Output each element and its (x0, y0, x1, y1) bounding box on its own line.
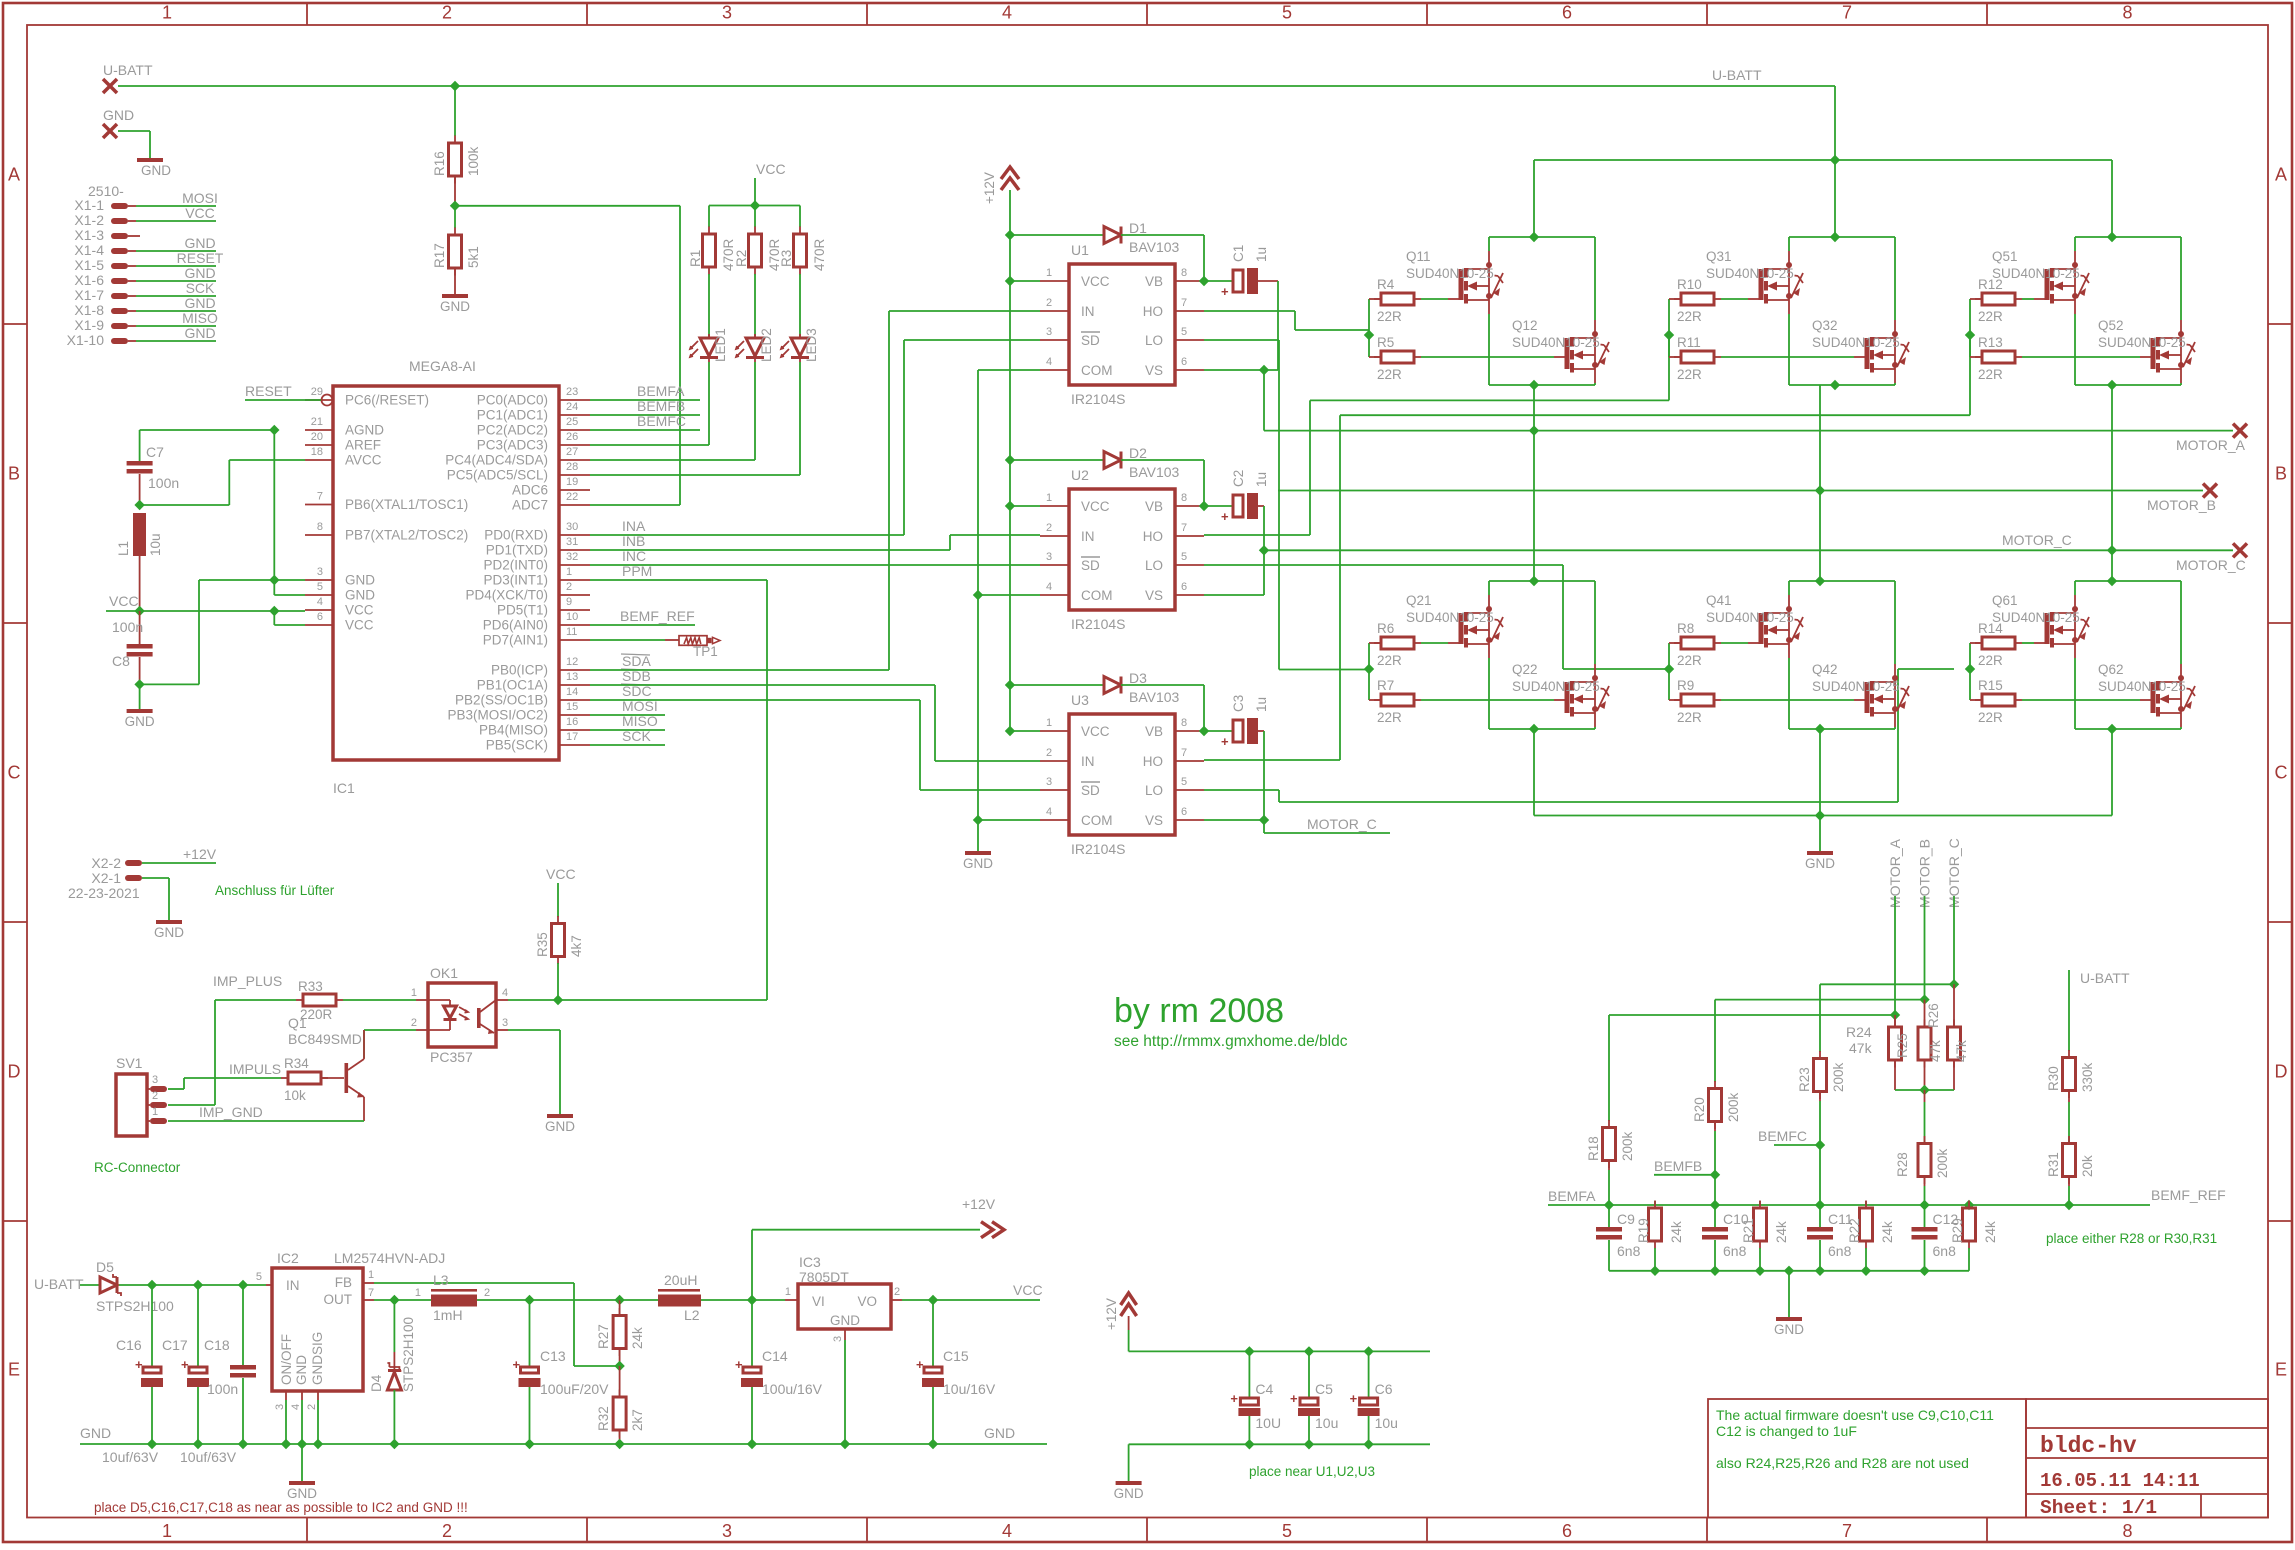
svg-text:R3: R3 (779, 250, 794, 267)
inductor L2 20uH (658, 1289, 701, 1307)
svg-text:LO: LO (1145, 333, 1163, 348)
wire OUT to L3 (394, 1299, 431, 1301)
svg-text:R31: R31 (2046, 1152, 2061, 1177)
junction VS U3 / MOTOR_C stub (1259, 815, 1269, 825)
svg-text:OUT: OUT (324, 1292, 353, 1307)
svg-text:Q61: Q61 (1992, 593, 2018, 608)
svg-text:BEMFA: BEMFA (1548, 1188, 1596, 1204)
pin 2 PD4(XCK/T0) (559, 594, 590, 596)
svg-text:2: 2 (566, 581, 572, 593)
svg-text:1: 1 (1046, 717, 1052, 729)
svg-text:22R: 22R (1978, 653, 2003, 668)
pin 11 PD7(AIN1) (559, 639, 590, 641)
wire +12V tap to arrow (752, 1229, 980, 1231)
junction R26 top (1949, 979, 1959, 989)
svg-text:BC849SMD: BC849SMD (288, 1031, 362, 1047)
svg-text:BEMF_REF: BEMF_REF (2151, 1187, 2226, 1203)
svg-text:ADC6: ADC6 (512, 483, 548, 498)
svg-text:VCC: VCC (1013, 1282, 1043, 1298)
svg-text:2: 2 (306, 1404, 318, 1410)
svg-text:10U: 10U (1255, 1415, 1281, 1431)
pin 4 IC2 bottom (301, 1391, 303, 1400)
wire U-BATT spur A-C (1534, 159, 2112, 161)
wire to D2 (1010, 459, 1104, 461)
wire R24-R26 bottoms (1895, 1089, 1954, 1091)
svg-text:IN: IN (1081, 754, 1095, 769)
wire INC (590, 564, 1040, 566)
svg-text:C: C (8, 763, 21, 783)
svg-text:6: 6 (1181, 356, 1187, 368)
wire R11 to gate (1721, 356, 1854, 358)
diode D3 BAV103 (1104, 677, 1121, 694)
junction FB divider (614, 1361, 624, 1371)
svg-text:R25: R25 (1895, 1033, 1910, 1058)
wire D2 to VB (1121, 459, 1204, 461)
svg-text:R24: R24 (1846, 1024, 1872, 1040)
capacitor C7 (127, 461, 153, 474)
junction R27 top (614, 1295, 624, 1305)
junction VCC node (134, 606, 144, 616)
junction feed Q11/Q12 (1529, 232, 1539, 242)
svg-text:2: 2 (442, 1521, 452, 1541)
svg-text:GND: GND (184, 235, 215, 251)
svg-text:R29: R29 (1950, 1218, 1965, 1243)
pin 1 PD3(INT1) (559, 579, 590, 581)
wire VB to C3 (1204, 730, 1233, 732)
junction IC2 pin3 GND (281, 1439, 291, 1449)
wire +12V tap (751, 1230, 753, 1300)
junction input cap x=198 (193, 1280, 203, 1290)
wire fan GND (142, 877, 169, 879)
wire MOTOR_B (1278, 490, 2203, 492)
junction input cap x=152 (147, 1280, 157, 1290)
svg-text:+: + (1221, 284, 1229, 299)
svg-text:BEMFB: BEMFB (637, 398, 685, 414)
capacitor C14 (735, 1357, 763, 1387)
ground fan (154, 920, 184, 940)
wire gate junction R8/R9 (1668, 643, 1670, 700)
ground below bridges (1805, 851, 1835, 871)
svg-text:22R: 22R (1377, 309, 1402, 324)
junction C16 GND (147, 1439, 157, 1449)
svg-text:3: 3 (1046, 551, 1052, 563)
svg-text:47k: 47k (1954, 1040, 1969, 1062)
pin 4 VCC (305, 609, 333, 611)
junction MOTOR_A / bridge A (1529, 425, 1539, 435)
svg-text:L3: L3 (433, 1272, 449, 1288)
wire U-BATT to R16 (454, 86, 456, 136)
svg-text:Q62: Q62 (2098, 662, 2124, 677)
svg-text:1u: 1u (1254, 472, 1269, 487)
wire gate junction R12/R13 (1969, 299, 1971, 357)
svg-text:VS: VS (1145, 363, 1163, 378)
capacitor C15 (916, 1357, 944, 1387)
svg-text:4: 4 (1046, 356, 1052, 368)
svg-text:32: 32 (566, 551, 578, 563)
resistor R34 (281, 1077, 288, 1079)
svg-text:GND: GND (345, 573, 375, 588)
junction input cap x=243 (238, 1280, 248, 1290)
svg-text:Q41: Q41 (1706, 593, 1732, 608)
pin 24 PC1(ADC1) (559, 414, 590, 416)
capacitor C6 (1350, 1391, 1380, 1416)
svg-text:TP1: TP1 (693, 644, 718, 659)
svg-text:PC5(ADC5/SCL): PC5(ADC5/SCL) (447, 468, 548, 483)
power symbol +12V (supply) (981, 1222, 1004, 1238)
svg-text:2: 2 (1046, 747, 1052, 759)
junction BEMF_REF x=1715 (1710, 1200, 1720, 1210)
svg-text:X1-2: X1-2 (74, 212, 104, 228)
wire R1 to LED1 (708, 274, 710, 338)
svg-text:BEMFA: BEMFA (637, 383, 685, 399)
junction BEMF_REF x=1924.5 (1919, 1200, 1929, 1210)
svg-text:IC1: IC1 (333, 780, 355, 796)
svg-text:Q32: Q32 (1812, 318, 1838, 333)
svg-text:C5: C5 (1315, 1381, 1333, 1397)
junction D4 GND (389, 1439, 399, 1449)
svg-text:RESET: RESET (245, 383, 292, 399)
svg-text:Q11: Q11 (1406, 249, 1431, 264)
svg-text:R18: R18 (1586, 1136, 1601, 1161)
svg-text:6: 6 (1181, 806, 1187, 818)
svg-text:PB7(XTAL2/TOSC2): PB7(XTAL2/TOSC2) (345, 528, 468, 543)
transistor Q61 (2045, 595, 2090, 658)
junction IC2 pin2 GND (313, 1439, 323, 1449)
frame column ticks top/bottom (306, 3, 308, 25)
svg-text:X1-8: X1-8 (74, 302, 104, 318)
wire U2 HO (1204, 534, 1310, 536)
svg-text:D: D (2275, 1062, 2288, 1082)
svg-text:8: 8 (2122, 1521, 2132, 1541)
pin 3 GND (305, 579, 333, 581)
svg-text:SUD40N10-25: SUD40N10-25 (1512, 679, 1600, 694)
svg-text:PD6(AIN0): PD6(AIN0) (483, 618, 548, 633)
wire C18 top (242, 1285, 244, 1365)
svg-text:SV1: SV1 (116, 1055, 143, 1071)
svg-text:LM2574HVN-ADJ: LM2574HVN-ADJ (334, 1250, 445, 1266)
wire R13 to gate (2022, 356, 2140, 358)
svg-text:3: 3 (1046, 776, 1052, 788)
svg-text:GND: GND (440, 299, 470, 314)
svg-text:4: 4 (290, 1404, 302, 1410)
pin 1 VCC U3 (1040, 730, 1069, 732)
junction BEMF GND x=1789 (1784, 1266, 1794, 1276)
wire SDB riser (934, 685, 936, 761)
svg-text:13: 13 (566, 671, 578, 683)
svg-text:22R: 22R (1677, 367, 1702, 382)
svg-text:PD2(INT0): PD2(INT0) (483, 558, 548, 573)
wire R5 to gate (1421, 356, 1554, 358)
svg-text:SUD40N10-25: SUD40N10-25 (1812, 679, 1900, 694)
svg-text:5: 5 (1181, 551, 1187, 563)
svg-text:R15: R15 (1978, 678, 2003, 693)
junction output Q51/Q52 (2107, 380, 2117, 390)
svg-text:GND: GND (287, 1486, 317, 1501)
svg-text:R19: R19 (1636, 1218, 1651, 1243)
wire U-BATT in (80, 1284, 100, 1286)
junction gates R6/R7 (1364, 664, 1374, 674)
svg-text:SD: SD (1081, 783, 1100, 798)
wire VCC to pin4 (106, 610, 305, 612)
junction R28 top (1919, 1085, 1929, 1095)
svg-text:D2: D2 (1129, 445, 1147, 461)
wire lower bridge B to GND bus (1819, 729, 1821, 816)
wire SDA riser (888, 311, 890, 670)
svg-text:U1: U1 (1071, 242, 1089, 258)
svg-text:GND: GND (830, 1313, 860, 1328)
svg-text:R17: R17 (432, 243, 447, 268)
svg-text:4: 4 (1046, 806, 1052, 818)
pin 15 PB3(MOSI/OC2) (559, 714, 590, 716)
svg-text:2: 2 (152, 1090, 158, 1102)
svg-text:PC1(ADC1): PC1(ADC1) (477, 408, 548, 423)
transistor Q12 (1565, 320, 1610, 383)
pin 21 AGND (305, 429, 333, 431)
transistor Q51 (2045, 251, 2090, 314)
svg-text:+: + (135, 1357, 143, 1372)
svg-text:5: 5 (256, 1271, 262, 1283)
junction IC2 pin4 GND (297, 1439, 307, 1449)
wire OK1 pin2 to Q1 (364, 1029, 416, 1031)
transistor Q31 (1759, 251, 1804, 314)
wire net BEMFA (590, 399, 700, 401)
wire U-BATT down to bridge B (1834, 86, 1836, 237)
svg-text:4k7: 4k7 (569, 935, 584, 957)
svg-text:C16: C16 (116, 1337, 142, 1353)
ic U2 IR2104S body (1069, 489, 1175, 610)
wire R19 top (1654, 1201, 1656, 1205)
wire C16 top (151, 1285, 153, 1367)
wire rail to R2 (754, 206, 756, 228)
wire MOTOR_A to lower bridge A (1533, 431, 1535, 581)
pin 5 LO U2 (1175, 564, 1204, 566)
svg-text:27: 27 (566, 446, 578, 458)
net stub MOTOR_A (2233, 424, 2247, 438)
wire bridge GND bus (1534, 815, 2112, 817)
svg-text:4: 4 (1002, 3, 1012, 23)
wire AGND down to GND pins (273, 430, 275, 580)
wire R15 to gate (2022, 699, 2140, 701)
junction GND pins 3/5 (269, 575, 279, 585)
svg-text:GND: GND (1774, 1322, 1804, 1337)
svg-text:R11: R11 (1677, 335, 1701, 350)
svg-text:SUD40N10-25: SUD40N10-25 (1706, 610, 1794, 625)
svg-text:29: 29 (311, 386, 323, 398)
capacitor C13 (513, 1357, 541, 1387)
svg-text:R26: R26 (1926, 1003, 1941, 1028)
svg-text:19: 19 (566, 476, 578, 488)
svg-text:10u/16V: 10u/16V (943, 1381, 996, 1397)
svg-text:PB6(XTAL1/TOSC1): PB6(XTAL1/TOSC1) (345, 497, 468, 512)
optocoupler OK1 internals (428, 1000, 496, 1034)
svg-text:+: + (1221, 734, 1229, 749)
svg-text:330k: 330k (2080, 1062, 2095, 1092)
connector pin X1-1 (111, 203, 128, 209)
svg-text:VCC: VCC (1081, 274, 1110, 289)
connector pin X1-2 (111, 218, 128, 224)
wire C10 top (1714, 1205, 1716, 1227)
pin 4 COM U3 (1040, 819, 1069, 821)
svg-text:20: 20 (311, 431, 323, 443)
svg-text:U2: U2 (1071, 467, 1089, 483)
wire C15 top (932, 1300, 934, 1367)
svg-text:place D5,C16,C17,C18 as near a: place D5,C16,C17,C18 as near as possible… (94, 1500, 468, 1515)
pin 2 IN U3 (1040, 760, 1069, 762)
pin 6 VS U1 (1175, 369, 1204, 371)
resistor R3 (799, 227, 801, 235)
wire spur down to bridge A (1533, 160, 1535, 237)
transistor Q32 (1865, 320, 1910, 383)
pin 19 ADC6 (559, 489, 590, 491)
svg-text:PB3(MOSI/OC2): PB3(MOSI/OC2) (447, 708, 548, 723)
junction +12V to U2 VCC (1005, 501, 1015, 511)
svg-text:C6: C6 (1375, 1381, 1393, 1397)
svg-text:PB1(OC1A): PB1(OC1A) (477, 678, 548, 693)
connector pin X1-4 (111, 248, 128, 254)
pin 12 PB0(ICP) (559, 669, 590, 671)
svg-text:6n8: 6n8 (1723, 1243, 1747, 1259)
wire C13 to R27 (530, 1299, 620, 1301)
wire D4 to GND (393, 1390, 395, 1444)
pin 32 PD2(INT0) (559, 564, 590, 566)
resistor R16 (454, 136, 456, 144)
wire MOTOR_B sense (1924, 896, 1926, 1000)
ground below C8 (125, 709, 155, 729)
svg-text:7805DT: 7805DT (799, 1269, 849, 1285)
wire +12V rail down (1009, 190, 1011, 731)
pin 2 IN U2 (1040, 535, 1069, 537)
wire R9 to gate (1721, 699, 1854, 701)
connector pin X1-7 (111, 293, 128, 299)
wire rail to R1 (708, 206, 710, 228)
led LED2 (736, 334, 764, 362)
svg-text:Anschluss für Lüfter: Anschluss für Lüfter (215, 883, 335, 898)
svg-text:24k: 24k (1774, 1221, 1789, 1243)
wire U3 LO (1204, 789, 1279, 791)
wire to D3 (1010, 684, 1104, 686)
svg-text:47k: 47k (1928, 1040, 1943, 1062)
pin 14 PB2(SS/OC1B) (559, 699, 590, 701)
svg-text:6: 6 (1181, 581, 1187, 593)
wire net BEMFB (590, 414, 700, 416)
wire VS3 stub (1263, 820, 1265, 833)
svg-text:LED2: LED2 (759, 328, 774, 362)
svg-text:17: 17 (566, 731, 578, 743)
junction feed Q51/Q52 (2107, 232, 2117, 242)
svg-text:100n: 100n (207, 1381, 238, 1397)
junction +12V to U1 VCC (1005, 276, 1015, 286)
pin 28 PC5(ADC5/SCL) (559, 474, 590, 476)
junction OUT/D4 (389, 1295, 399, 1305)
svg-text:HO: HO (1143, 529, 1163, 544)
svg-text:D: D (8, 1062, 21, 1082)
wire R17 to GND (454, 268, 456, 294)
connector pin X2-1 (125, 875, 142, 881)
svg-text:SUD40N10-25: SUD40N10-25 (2098, 335, 2186, 350)
svg-text:D3: D3 (1129, 670, 1147, 686)
junction R24 top (1890, 1010, 1900, 1020)
svg-text:R27: R27 (596, 1324, 611, 1349)
svg-text:R16: R16 (432, 151, 447, 176)
wire C4 top (1248, 1351, 1250, 1398)
wire C14 bottom (751, 1387, 753, 1444)
svg-text:R13: R13 (1978, 335, 2003, 350)
svg-text:C7: C7 (146, 444, 164, 460)
net label RESET wire to pin29 (245, 399, 321, 401)
pin 8 VB U2 (1175, 505, 1204, 507)
svg-text:LO: LO (1145, 783, 1163, 798)
svg-text:R10: R10 (1677, 277, 1702, 292)
svg-text:6: 6 (317, 611, 323, 623)
wire U3 HO (1204, 759, 1340, 761)
wire C17 bottom (197, 1387, 199, 1444)
svg-text:22-23-2021: 22-23-2021 (68, 885, 140, 901)
svg-text:3: 3 (722, 1521, 732, 1541)
junction gates R14/R15 (1965, 664, 1975, 674)
pin 7 PB6(XTAL1/TOSC1) (305, 504, 333, 506)
svg-text:B: B (2275, 464, 2287, 484)
svg-text:MISO: MISO (622, 713, 658, 729)
svg-text:3: 3 (832, 1336, 844, 1342)
wire GND rail C4-C6 (1129, 1443, 1430, 1445)
ground (137, 158, 163, 162)
svg-text:U-BATT: U-BATT (34, 1276, 84, 1292)
pin 26 PC3(ADC3) (559, 444, 590, 446)
svg-text:Q42: Q42 (1812, 662, 1838, 677)
wire VS U2 (1204, 594, 1264, 596)
ground IC2 (287, 1481, 317, 1501)
svg-text:8: 8 (1181, 717, 1187, 729)
svg-text:VCC: VCC (109, 593, 139, 609)
junction +12V to D2 (1005, 455, 1015, 465)
wire MOTOR_A (1264, 430, 2233, 432)
svg-text:SCK: SCK (186, 280, 215, 296)
capacitor C16 (135, 1357, 163, 1387)
wire COM chain down (977, 370, 979, 851)
wire net GND (128, 250, 136, 252)
junction R32 GND (614, 1439, 624, 1449)
svg-text:22R: 22R (1677, 309, 1702, 324)
svg-text:VB: VB (1145, 274, 1163, 289)
svg-text:10: 10 (566, 611, 578, 623)
svg-text:BEMF_REF: BEMF_REF (620, 608, 695, 624)
svg-text:22R: 22R (1677, 653, 1702, 668)
wire rail to R3 (799, 206, 801, 228)
svg-text:GND: GND (545, 1119, 575, 1134)
svg-text:100uF/20V: 100uF/20V (540, 1381, 609, 1397)
wire U1 HO (1204, 310, 1295, 312)
svg-text:VI: VI (812, 1294, 825, 1309)
junction feed Q21/Q22 (1529, 576, 1539, 586)
svg-text:U3: U3 (1071, 692, 1089, 708)
junction BEMFB (1710, 1170, 1720, 1180)
wire to R28 (1924, 1090, 1926, 1102)
svg-text:SD: SD (1081, 333, 1100, 348)
svg-text:5k1: 5k1 (466, 246, 481, 268)
pin 9 PD5(T1) (559, 609, 590, 611)
svg-text:PD4(XCK/T0): PD4(XCK/T0) (465, 588, 548, 603)
svg-text:C14: C14 (762, 1348, 788, 1364)
svg-text:C4: C4 (1255, 1381, 1273, 1397)
wire to R24 (1894, 1015, 1896, 1028)
wire C14 top (751, 1300, 753, 1367)
svg-text:R2: R2 (734, 250, 749, 267)
wire L3 to C13 (477, 1299, 530, 1301)
power symbol +12V (driver rail) (1001, 167, 1019, 190)
ground below R17 (440, 294, 470, 314)
svg-text:RESET: RESET (177, 250, 224, 266)
svg-text:2: 2 (1046, 297, 1052, 309)
